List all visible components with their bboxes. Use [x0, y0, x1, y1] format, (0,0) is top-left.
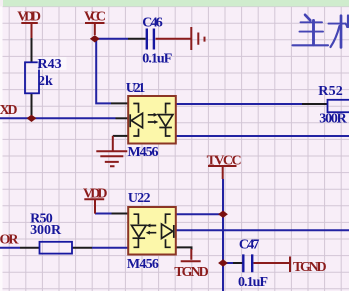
ground symbol below U21: [96, 136, 127, 166]
pin dot U21 cathode: [127, 117, 130, 120]
wire U22 pin 4 to TVCC junction: [176, 213, 224, 215]
port TGND bar under U22: [181, 249, 201, 261]
wire OR to R50: [0, 247, 20, 249]
svg-text:300R: 300R: [30, 223, 62, 238]
svg-text:U22: U22: [128, 191, 151, 206]
wire VCC junction to C46: [95, 38, 128, 40]
pin R50 leads: [20, 247, 92, 249]
pin R43 bottom lead: [31, 93, 33, 118]
pin C47 left lead: [233, 262, 243, 264]
resistor R52 (cut at right edge): [328, 100, 349, 112]
svg-text:U21: U21: [126, 81, 146, 96]
junction node at C47: [218, 259, 228, 266]
svg-text:0.1uF: 0.1uF: [142, 52, 172, 67]
capacitor C47: [243, 254, 252, 272]
pin U21 cathode lead: [116, 117, 131, 119]
svg-text:TGND: TGND: [293, 260, 327, 275]
svg-text:VCC: VCC: [84, 9, 106, 24]
svg-text:XD: XD: [0, 103, 18, 118]
U21 photodiode triangle: [158, 115, 173, 127]
svg-text:C47: C47: [239, 237, 260, 252]
U21 LED triangle: [131, 113, 142, 127]
U21 photodiode bottom hook: [166, 128, 171, 137]
pin U22 TGND lead: [176, 247, 192, 250]
resistor R50: [40, 242, 73, 254]
power VDD2 bar and stem: [84, 199, 104, 213]
U21 emission arrows: [148, 115, 155, 122]
pin R52 left lead: [302, 103, 328, 105]
U22 photodiode cathode bar: [133, 237, 146, 239]
svg-text:VDD: VDD: [83, 187, 108, 202]
opto-coupler U21 body: [128, 96, 176, 144]
ground symbol after C46: [156, 27, 205, 50]
U21 anode hook top-left: [133, 104, 138, 113]
wire U21 pin 4 to R52: [176, 103, 303, 105]
wire U22 middle pin to right edge: [175, 229, 349, 231]
wire VCC drop to U21 pin 1: [96, 39, 111, 104]
svg-text:TGND: TGND: [174, 265, 208, 280]
junction node XD/R43: [27, 115, 37, 122]
wire net XD to U21 LED: [0, 117, 116, 119]
power VCC bar and stem: [85, 23, 105, 35]
opto-coupler U22 body: [128, 207, 176, 255]
U22 photodiode triangle: [132, 225, 147, 237]
U21 cathode hook bottom-left: [133, 129, 138, 136]
svg-text:R43: R43: [38, 57, 62, 72]
svg-text:M456: M456: [128, 145, 159, 160]
pin U22 anode lead: [112, 213, 129, 215]
U22 arrowhead bottom: [146, 231, 150, 235]
capacitor C46: [147, 29, 154, 50]
pin R43 top lead: [31, 38, 33, 62]
wire junction to C47: [223, 262, 233, 264]
power VDD bar and stem: [21, 23, 38, 38]
pin U21 anode lead: [111, 102, 129, 104]
U22 photodiode top hook: [134, 214, 139, 224]
svg-text:0.1uF: 0.1uF: [238, 275, 268, 290]
wire U21 pin 3 to right edge: [176, 135, 349, 137]
U21 photodiode top hook: [166, 104, 171, 114]
U21 arrowhead top: [154, 113, 158, 117]
U21 arrowhead bottom: [154, 120, 158, 124]
U22 anode hook top-right: [166, 214, 171, 223]
svg-text:2k: 2k: [38, 74, 53, 89]
svg-text:C46: C46: [142, 16, 163, 31]
U22 arrowhead top: [146, 224, 150, 228]
svg-text:300R: 300R: [319, 112, 347, 127]
svg-text:M456: M456: [127, 257, 159, 272]
U22 cathode hook bottom-right: [166, 239, 171, 247]
U21 photodiode cathode bar: [159, 127, 172, 129]
svg-text:R52: R52: [318, 84, 343, 99]
svg-text:TVCC: TVCC: [207, 153, 242, 168]
U22 LED triangle: [162, 224, 173, 238]
U22 photodiode bottom hook: [134, 238, 139, 247]
title text (Chinese): [293, 15, 349, 48]
junction node VCC: [90, 35, 100, 42]
junction node TVCC: [218, 211, 228, 218]
svg-text:OR: OR: [0, 233, 19, 248]
U21 LED cathode bar: [129, 114, 131, 127]
port TGND right bar and wire from C47: [254, 257, 291, 273]
U22 LED cathode bar: [173, 225, 175, 238]
resistor R43: [25, 62, 39, 93]
wire TVCC net vertical: [222, 179, 224, 291]
U22 emission arrows: [150, 226, 157, 233]
pin U21 ground lead: [113, 135, 128, 137]
svg-text:VDD: VDD: [17, 9, 41, 24]
pin C46 left lead: [128, 38, 146, 40]
power TVCC bar and stem: [208, 166, 237, 179]
wire R50 to U22: [92, 247, 129, 249]
wire VDD2 to U22 pin 1: [95, 213, 112, 215]
